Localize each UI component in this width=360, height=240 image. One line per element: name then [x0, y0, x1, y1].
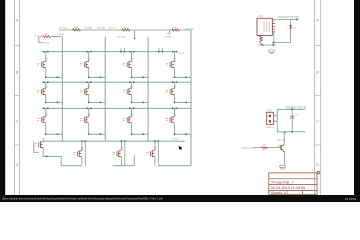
wire drain Q16	[155, 141, 158, 166]
wire column bus 4	[190, 30, 192, 166]
title text row 2	[271, 186, 305, 190]
IC U1	[257, 18, 272, 35]
diode D1	[289, 25, 292, 28]
status bar time text	[345, 197, 357, 201]
net label PWM PC1	[241, 146, 254, 150]
transistor Q16	[146, 148, 157, 157]
wire drain Q14	[82, 141, 85, 166]
wire Q17 emitter	[283, 152, 285, 165]
transistor Q8	[166, 86, 177, 95]
svg-text:PWM PC1: PWM PC1	[241, 146, 254, 150]
label KWL-2	[266, 125, 275, 129]
svg-text:D: D	[16, 163, 19, 167]
wire column bus 2	[104, 37, 106, 142]
IC U1 pins	[272, 20, 275, 32]
left black bar	[0, 0, 5, 202]
transistor Q3	[123, 59, 134, 68]
wire drain Q15	[121, 141, 124, 166]
right black bar	[354, 0, 360, 202]
junction drain Q1	[43, 51, 48, 53]
wire row bus 4	[43, 140, 185, 142]
junction source Q11	[131, 133, 144, 135]
wire IC bottom net	[258, 32, 291, 45]
svg-text:04-04-2015 21:44:08: 04-04-2015 21:44:08	[271, 186, 305, 190]
wire drain Q6	[88, 82, 90, 89]
svg-text:B: B	[16, 71, 19, 75]
connector U$2	[267, 112, 274, 124]
junction drain Q4	[172, 51, 177, 53]
wire source Q13 row4 col1	[43, 148, 61, 166]
ground GND2	[280, 165, 286, 169]
transistor Q13	[35, 139, 46, 148]
svg-text:01 15/04: 01 15/04	[345, 197, 357, 201]
wire source Q3	[132, 67, 149, 77]
svg-text:Sheets 1/2: Sheets 1/2	[271, 191, 289, 195]
net label PT.AB	[97, 26, 105, 30]
transistor Q17	[278, 145, 285, 153]
junction source Q8	[174, 102, 187, 104]
label NP-Q1	[277, 138, 286, 142]
net label VDD mid	[285, 106, 307, 110]
wire row bus 1	[42, 51, 178, 53]
svg-text:VDD/BATT/STOR: VDD/BATT/STOR	[278, 15, 300, 19]
wire source Q1	[46, 67, 63, 77]
junction drain Q10	[86, 108, 91, 110]
transistor Q10	[80, 114, 91, 123]
svg-text:PT.AB: PT.AB	[97, 26, 105, 30]
wire source Q9	[46, 123, 63, 135]
wire drain Q2	[88, 52, 90, 62]
junction drain Q2	[86, 51, 91, 53]
transistor Q11	[123, 114, 134, 123]
wire PWM to R14	[254, 147, 262, 149]
label U$2	[267, 109, 273, 113]
label U1	[258, 14, 264, 18]
transistor Q9	[37, 114, 48, 123]
wire drain Q4	[174, 52, 176, 62]
net label PT.T	[109, 26, 115, 30]
title text row 1	[271, 179, 294, 184]
svg-text:A: A	[16, 19, 19, 23]
junction source Q5	[45, 102, 58, 104]
junction source Q2	[88, 77, 101, 79]
wire source Q10	[89, 123, 106, 135]
wire source Q8	[175, 95, 192, 103]
junction drain Q3	[129, 51, 134, 53]
svg-text:PT.B: PT.B	[166, 35, 172, 39]
svg-text:A: A	[316, 19, 319, 23]
wire drain Q9	[45, 108, 47, 117]
wire top rail net	[59, 29, 191, 31]
wire drop from top rail A	[134, 30, 136, 40]
resistor R14	[262, 145, 268, 150]
net label PC2	[173, 137, 179, 141]
svg-text:B: B	[316, 71, 319, 75]
wire drain Q5	[45, 82, 47, 89]
junction drain Q7	[129, 81, 134, 83]
transistor Q5	[37, 86, 48, 95]
mouse cursor	[179, 146, 183, 151]
net label PT1	[35, 34, 41, 38]
svg-text:https.//outline.thevectorworld: https.//outline.thevectorworld.tech/text…	[2, 196, 163, 200]
wire drain Q12	[174, 108, 176, 117]
junction source Q1	[45, 77, 58, 79]
wire column bus 1	[61, 37, 63, 142]
svg-text:PT.V6A: PT.V6A	[59, 26, 68, 30]
svg-text:D: D	[316, 163, 319, 167]
transistor Q4	[166, 59, 177, 68]
resistor R13 below IC	[260, 36, 263, 46]
label C1	[295, 113, 299, 117]
junction BJT collector	[284, 132, 286, 134]
net label PT.V6A	[59, 26, 68, 30]
junction source Q7	[131, 102, 144, 104]
net label PT.BB	[85, 26, 93, 30]
ground GND1	[268, 50, 274, 54]
wire drain Q7	[131, 82, 133, 89]
resistor R3	[122, 27, 130, 31]
wire R1 left stub	[39, 37, 43, 43]
wire source Q5	[46, 95, 63, 103]
junction drain Q6	[86, 81, 91, 83]
transistor Q6	[80, 86, 91, 95]
wire gate stub Q13	[34, 142, 39, 153]
resistor R2	[73, 27, 81, 31]
junction drain Q15	[121, 140, 126, 142]
capacitor C1	[290, 109, 294, 132]
net label at row bus 1 end	[178, 51, 184, 55]
svg-text:D1: D1	[293, 26, 297, 30]
wire source Q14	[81, 157, 83, 166]
net label OTHR	[57, 33, 65, 37]
wire source Q7	[132, 95, 149, 103]
wire row bus 3	[42, 107, 191, 109]
svg-text:KWL-2: KWL-2	[266, 125, 275, 129]
wire VDD loop	[277, 109, 305, 132]
wire Q17 collector	[283, 132, 285, 145]
bottom black bar	[0, 195, 360, 202]
resistor R1	[43, 34, 51, 38]
svg-text:VDD/BATT/STOR: VDD/BATT/STOR	[285, 106, 307, 110]
title block marker circle	[317, 171, 320, 174]
junction drain Q5	[43, 81, 48, 83]
junction source Q9	[45, 133, 58, 135]
svg-text:PC2: PC2	[173, 137, 179, 141]
wire R1 to column bus	[51, 36, 62, 38]
junction cap bottom	[291, 131, 293, 133]
wire row bus 2	[42, 81, 191, 83]
title text row 3	[271, 191, 289, 195]
wire VDD rail top	[275, 19, 299, 43]
junction source Q4	[174, 77, 187, 79]
wire bottom loop 2	[113, 155, 135, 166]
junction drain Q16	[154, 140, 159, 142]
wire R4 left hook	[167, 30, 170, 34]
svg-text:OTHR: OTHR	[57, 33, 65, 37]
wire bottom loop 1	[61, 165, 81, 167]
wire U$2 pins to bus	[273, 116, 277, 121]
wire source Q4	[175, 67, 192, 77]
net label PT3	[44, 41, 50, 45]
wire source Q6	[89, 95, 106, 103]
wire drain Q3	[131, 52, 133, 62]
svg-text:C: C	[316, 120, 319, 124]
junction drain Q11	[129, 108, 134, 110]
svg-text:Gnd: Gnd	[178, 51, 184, 55]
wire R14 to base	[267, 147, 280, 149]
wire source Q16	[154, 157, 156, 166]
net label PT.TB	[117, 35, 125, 39]
wire drain Q8	[174, 82, 176, 89]
junction drain Q12	[172, 108, 177, 110]
wire source Q11	[132, 123, 149, 135]
junction drain Q9	[43, 108, 48, 110]
wire drain Q11	[131, 108, 133, 117]
junction drain Q8	[172, 81, 177, 83]
transistor Q12	[166, 114, 177, 123]
junction source Q6	[88, 102, 101, 104]
label D1	[293, 26, 297, 30]
transistor Q15	[113, 148, 124, 157]
junction source Q10	[88, 133, 101, 135]
svg-text:PT.BB: PT.BB	[85, 26, 93, 30]
net label PT.B	[166, 35, 172, 39]
wire drain Q10	[88, 108, 90, 117]
junction IC bottom	[262, 44, 274, 46]
svg-text:P.TOP: P.TOP	[186, 27, 194, 31]
svg-text:NP-Q1: NP-Q1	[277, 138, 286, 142]
frame left rails	[15, 0, 20, 195]
svg-text:U$1: U$1	[267, 109, 273, 113]
wire source Q15	[120, 157, 122, 166]
frame right rails	[315, 0, 321, 195]
svg-text:PT1: PT1	[35, 34, 41, 38]
status bar url text	[2, 196, 163, 200]
transistor Q7	[123, 86, 134, 95]
svg-text:LD5: LD5	[258, 14, 264, 18]
svg-text:PT.TB: PT.TB	[117, 35, 125, 39]
transistor Q2	[80, 59, 91, 68]
wire bottom loop 3	[158, 165, 191, 167]
title block	[269, 173, 317, 194]
wire source Q12	[175, 123, 192, 135]
transistor Q14	[73, 148, 84, 157]
svg-text:TFeap438_7: TFeap438_7	[271, 179, 294, 184]
svg-text:C1: C1	[295, 113, 299, 117]
junction drain Q14	[81, 140, 86, 142]
svg-text:PT.T: PT.T	[109, 26, 115, 30]
wire drain Q1	[45, 52, 47, 62]
junction stubs on row bus 1	[120, 48, 163, 52]
wire column bus 3	[147, 37, 149, 142]
transistor Q1	[37, 59, 48, 68]
wire source Q2	[89, 67, 106, 77]
net label P.TOP	[186, 27, 194, 31]
junction source Q3	[131, 77, 144, 79]
junction cap top	[291, 109, 293, 111]
resistor R4	[172, 27, 180, 31]
net label VDD top	[278, 15, 300, 19]
junction source Q12	[174, 133, 187, 135]
svg-text:PT3: PT3	[44, 41, 50, 45]
svg-text:C: C	[16, 120, 19, 124]
